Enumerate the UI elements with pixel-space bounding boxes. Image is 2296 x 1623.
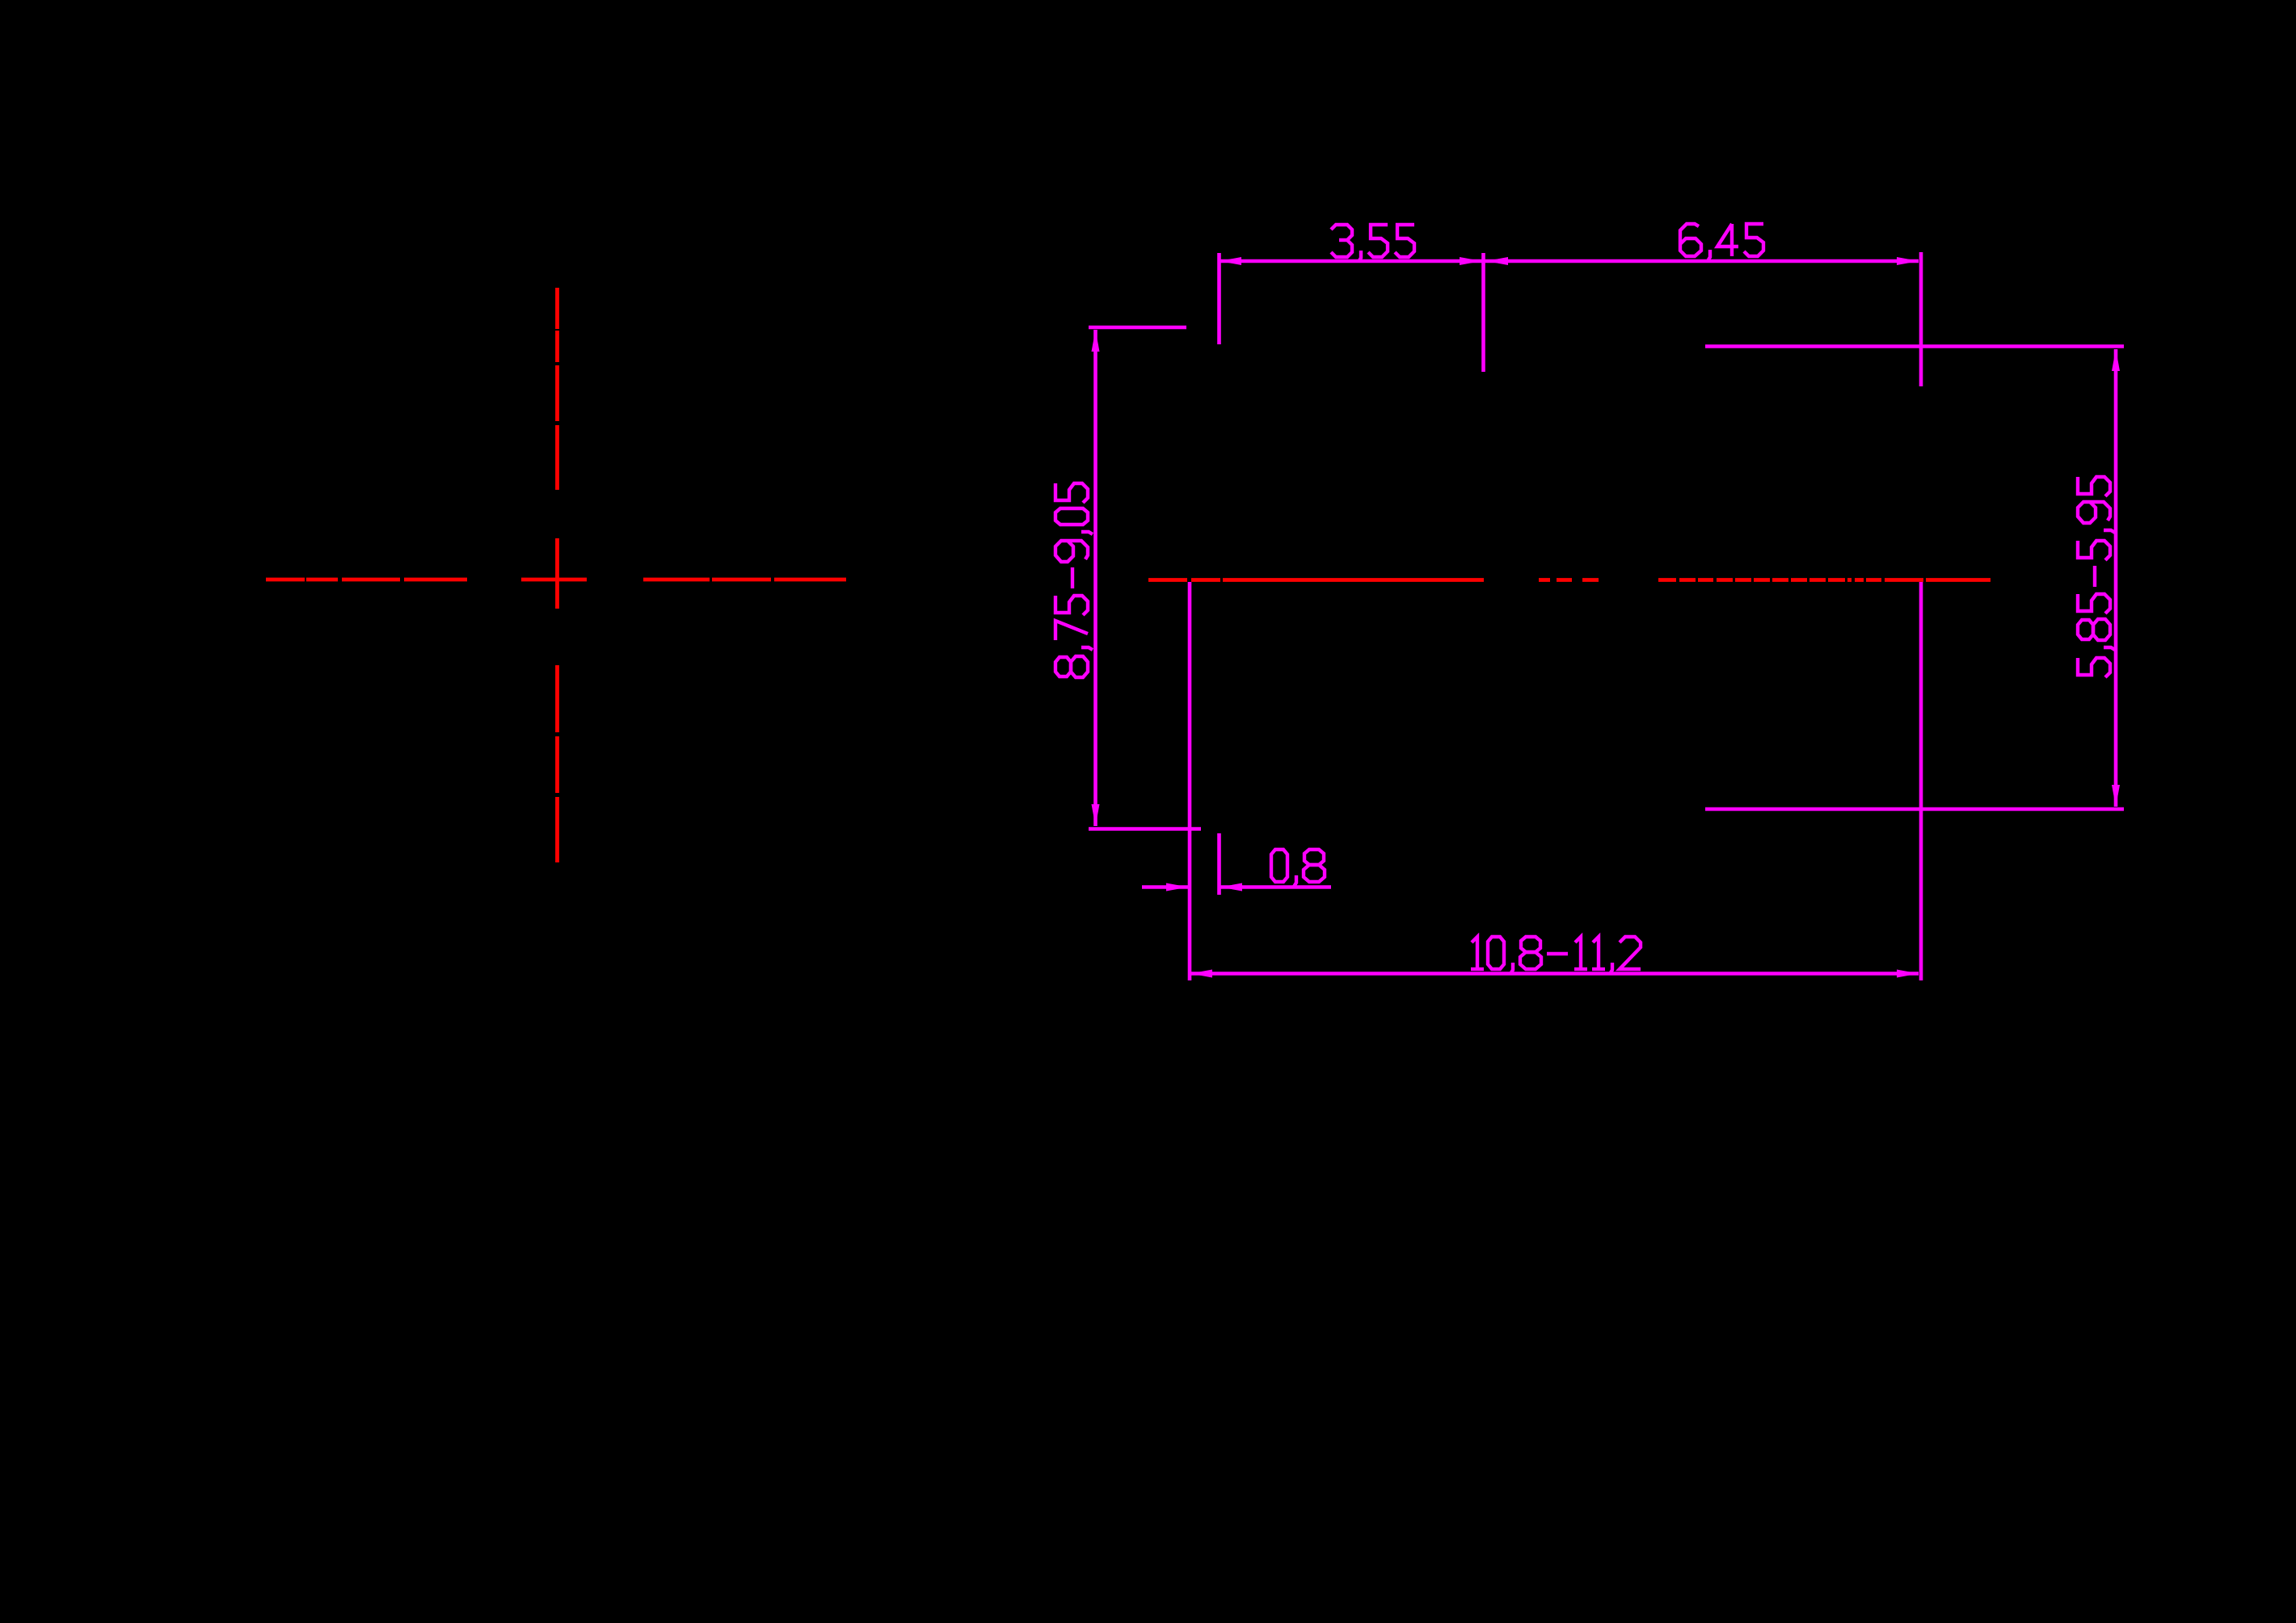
dim 8.75-9.05 dimension line (1093, 330, 1097, 826)
arrowhead 5.85-5.95 bottom (2112, 785, 2120, 807)
dim 10.8-11.2 dimension line (1190, 972, 1919, 976)
dim 3.55 / 6.45 dimension line (1220, 259, 1919, 263)
left view vertical centerline (red, dashed) (555, 288, 559, 862)
dim 0.8 right tail (1220, 885, 1331, 889)
arrowhead 8.75-9.05 bottom (1092, 804, 1100, 826)
dim 0.8 left tail (1142, 885, 1188, 889)
dim 5.85-5.95 dimension line (2114, 349, 2118, 807)
dim text 10.8-11.2 (1471, 937, 1641, 974)
arrowhead 3.55 left (1220, 257, 1241, 265)
dim 8.75-9.05 bottom extension line (1089, 827, 1201, 831)
arrowhead 6.45 right (1897, 257, 1919, 265)
extension line left (3.55) (1217, 253, 1221, 344)
extension line middle (3.55/6.45) (1481, 253, 1485, 372)
arrowhead 10.8-11.2 right (1897, 970, 1919, 978)
dim 8.75-9.05 top extension line (1089, 326, 1186, 330)
arrowhead 10.8-11.2 left (1190, 970, 1212, 978)
dim 0.8 right extension line (1217, 833, 1221, 895)
arrowhead 6.45 left (1486, 257, 1508, 265)
dim text 6.45 (1680, 224, 1763, 261)
right long extension line (10.8-11.2) (1919, 582, 1923, 980)
arrowhead 8.75-9.05 top (1092, 330, 1100, 352)
arrowhead 3.55 right (1460, 257, 1481, 265)
left long extension line (0.8 / 10.8-11.2) (1188, 582, 1192, 980)
arrowhead 0.8 left (points right) (1166, 883, 1188, 892)
left view horizontal centerline (red, dashed) (266, 578, 846, 582)
dim text 0.8 (1271, 849, 1325, 887)
arrowhead 5.85-5.95 top (2112, 349, 2120, 371)
dim 5.85-5.95 bottom extension line (1705, 807, 2124, 811)
dim text 5.85-5.95 (rotated) (2078, 477, 2115, 677)
dim 5.85-5.95 top extension line (1705, 344, 2124, 348)
dim text 3.55 (1331, 225, 1414, 262)
dim text 8.75-9.05 (rotated) (1055, 483, 1093, 677)
arrowhead 0.8 right (points left) (1220, 883, 1242, 892)
extension line right (6.45) upper (1919, 252, 1923, 386)
right view horizontal centerline (red, dashed) (1148, 578, 1991, 582)
